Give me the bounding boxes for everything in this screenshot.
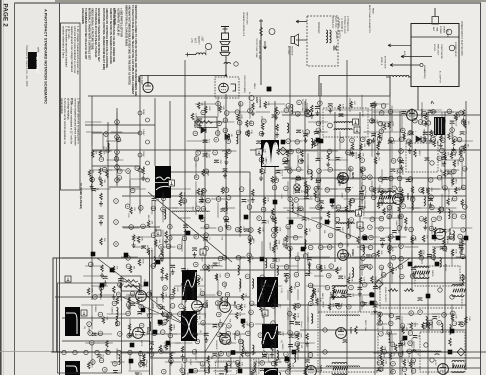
svg-text:HORIZ: HORIZ (105, 147, 107, 154)
resistor (403, 133, 406, 140)
pin circle (388, 263, 393, 268)
wire stub (111, 131, 123, 133)
ground (424, 121, 428, 126)
wire stub (165, 313, 180, 315)
transformer T4 sound coils (336, 211, 354, 224)
audio output transformer secondary (330, 30, 332, 43)
parts list note (113, 8, 123, 37)
network box (121, 276, 141, 291)
wire horizontal bus (92, 165, 140, 167)
resistor (219, 106, 222, 113)
svg-text:5mf: 5mf (375, 103, 377, 107)
pin circle (401, 204, 406, 209)
coil (208, 364, 210, 374)
pin circle (288, 169, 293, 174)
coil (448, 209, 450, 219)
svg-text:SPEAKER & INTERLOCK: SPEAKER & INTERLOCK (242, 12, 245, 37)
svg-text:470K: 470K (454, 152, 456, 157)
wire stub (217, 127, 219, 137)
coil (311, 170, 313, 180)
coil (352, 268, 354, 278)
resistor (349, 199, 352, 206)
pin circle (103, 367, 108, 372)
pin circle A (269, 29, 275, 35)
pin circle (422, 111, 427, 116)
pin circle (93, 295, 98, 300)
pin circle (296, 303, 301, 308)
pin circle (461, 185, 466, 190)
wire stub (317, 172, 319, 188)
ground (307, 262, 311, 267)
wire stub (249, 248, 251, 265)
capacitor (307, 258, 312, 261)
capacitor (295, 322, 300, 325)
wire stub (421, 102, 423, 120)
wire horizontal bus (250, 211, 466, 213)
callout box J (81, 310, 87, 316)
resistor (207, 265, 210, 272)
pin circle (360, 167, 365, 172)
wire diagonal 6 (97, 258, 185, 325)
resistor (181, 346, 184, 353)
transformer T2 4.5MC coils (334, 122, 352, 130)
ground (462, 118, 466, 123)
wire stub (280, 111, 300, 113)
wire stub (121, 256, 138, 258)
wire stub (174, 333, 194, 335)
svg-text:7MA: 7MA (436, 27, 439, 32)
svg-text:with: with (37, 47, 41, 53)
wire diagonal 3 (287, 210, 357, 238)
svg-text:100K: 100K (297, 303, 299, 308)
pin circle (305, 130, 310, 135)
pin circle (284, 265, 289, 270)
resistor (275, 107, 278, 114)
waveform photo W1 (155, 166, 171, 198)
wire speaker lead (296, 39, 307, 41)
pin circle tuner (205, 43, 211, 49)
terminal marker 9b (158, 320, 163, 325)
wire diagonal 4 (120, 296, 188, 326)
pin circle (117, 176, 122, 181)
resistor (170, 352, 173, 359)
resistor (274, 240, 277, 247)
capacitor (358, 207, 363, 210)
resistor (351, 143, 354, 150)
capacitor (428, 198, 433, 201)
wire stub (391, 106, 393, 122)
svg-text:8.2K: 8.2K (430, 187, 432, 192)
resistor (205, 106, 208, 113)
svg-text:PHOTOFACT: PHOTOFACT (35, 54, 39, 74)
pin circle (378, 121, 383, 126)
wire stub (323, 169, 342, 171)
svg-text:A TUNER AGC ...: A TUNER AGC ... (346, 16, 349, 34)
wire stub (106, 140, 121, 142)
coil (149, 322, 151, 332)
ground (274, 115, 278, 120)
wire stub (249, 290, 251, 300)
wire stub (132, 236, 152, 238)
svg-text:.0047: .0047 (302, 207, 304, 213)
pin circle (245, 131, 250, 136)
pin circle (203, 265, 208, 270)
pin circle (419, 255, 424, 260)
pin circle (369, 187, 374, 192)
scan left edge (0, 0, 2, 375)
terminal marker T4 (199, 215, 204, 220)
svg-text:12AU7: 12AU7 (155, 228, 158, 235)
filter choke coil (390, 75, 409, 77)
capacitor (220, 209, 225, 212)
ground (380, 242, 384, 247)
wire stub (274, 194, 276, 207)
pin circle (201, 207, 206, 212)
wire stub (443, 188, 461, 190)
coil (265, 258, 267, 268)
pin circle (99, 157, 104, 162)
capacitor (388, 141, 393, 144)
terminal marker 5 (301, 247, 306, 252)
pin circle (217, 121, 222, 126)
audio output dashed box (307, 16, 338, 66)
ground (327, 219, 331, 224)
pin circle (299, 159, 304, 164)
pin circle (407, 139, 412, 144)
pin circle (224, 188, 229, 193)
capacitor (131, 303, 136, 306)
pin circle (261, 207, 266, 212)
wire stub (277, 370, 297, 372)
capacitor (411, 267, 416, 270)
wire choke down (389, 77, 391, 96)
ground (284, 278, 288, 283)
pin circle (409, 227, 414, 232)
svg-text:AUDIO: AUDIO (335, 32, 338, 39)
coil (287, 123, 289, 133)
svg-text:1MEG: 1MEG (456, 160, 458, 166)
wire stub (239, 223, 241, 238)
transformer T8 (452, 285, 465, 297)
pin circle (227, 324, 232, 329)
callout box X (354, 127, 360, 133)
pin circle (151, 264, 156, 269)
pin circle (308, 353, 313, 358)
wire stub (431, 111, 454, 113)
wire stub (371, 181, 373, 198)
pin circle (378, 312, 383, 317)
ground (315, 110, 319, 115)
coil (277, 266, 279, 276)
pin circle (182, 236, 187, 241)
capacitor (362, 303, 367, 306)
resistor (128, 297, 131, 304)
pin circle (200, 362, 205, 367)
wire stub (400, 313, 418, 315)
resistor (408, 140, 411, 147)
resistor (410, 322, 413, 329)
diode D1 (201, 127, 206, 133)
wire stub (333, 207, 347, 209)
svg-text:VERT OSC ... F: VERT OSC ... F (334, 16, 336, 33)
power supply box (411, 24, 459, 87)
capacitor (135, 373, 140, 375)
terminal marker E2 (281, 140, 286, 145)
pin circle (201, 110, 206, 115)
pin circle (217, 312, 222, 317)
resistor (161, 267, 164, 274)
svg-text:VERTICAL: VERTICAL (412, 341, 415, 352)
coil (388, 333, 390, 343)
pin circle (201, 321, 206, 326)
wire stub (297, 155, 299, 167)
ground (423, 136, 427, 141)
pin circle (115, 178, 120, 183)
wire stub (225, 151, 227, 166)
pin circle (410, 197, 415, 202)
ground (330, 203, 334, 208)
pin circle (437, 130, 442, 135)
pin circle (151, 206, 156, 211)
pin circle term row 6 (128, 350, 132, 354)
wire stub (81, 304, 104, 306)
wire stub (255, 323, 272, 325)
pin circle (349, 285, 354, 290)
wire stub (116, 112, 118, 128)
wire stub (181, 287, 183, 305)
ground (251, 111, 255, 116)
wire vertical bus (169, 101, 171, 375)
wire stub (195, 181, 197, 194)
pin circle (88, 331, 93, 336)
wire stub (423, 313, 440, 315)
wire horizontal bus (300, 329, 466, 331)
wire box bottom down (417, 87, 419, 111)
wire horizontal bus (51, 351, 486, 353)
pin circle (314, 187, 319, 192)
resistor (239, 226, 242, 233)
svg-text:8.2K: 8.2K (275, 246, 277, 251)
svg-text:120K: 120K (383, 353, 385, 358)
pin circle (432, 217, 437, 222)
svg-text:(2): (2) (83, 326, 85, 329)
coil L2 (224, 62, 230, 64)
ground (397, 214, 401, 219)
wire stub (451, 171, 453, 186)
coil (242, 340, 244, 350)
terminal marker 9 (153, 330, 158, 335)
wire stub (217, 301, 219, 310)
pin circle (151, 233, 156, 238)
wire stub (278, 333, 296, 335)
pin circle (161, 196, 166, 201)
svg-text:2BN4: 2BN4 (137, 76, 140, 83)
pin circle (431, 109, 436, 114)
wire horizontal bus (350, 282, 466, 284)
wire horizontal bus (155, 171, 250, 173)
resistor (183, 372, 186, 375)
pin circle (196, 151, 201, 156)
svg-text:POWER: POWER (439, 26, 441, 34)
svg-text:3.3MEG: 3.3MEG (128, 295, 130, 303)
resistor (277, 148, 280, 155)
ground (400, 197, 404, 202)
capacitor (366, 255, 371, 258)
pin circle (288, 331, 293, 336)
pin circle (316, 121, 321, 126)
svg-text:VERT OSC: VERT OSC (447, 188, 449, 199)
resistor (358, 153, 361, 160)
svg-text:400T: 400T (215, 274, 219, 280)
pin circle (437, 320, 442, 325)
wire stub (231, 352, 249, 354)
ground (404, 225, 408, 230)
wire stub (430, 207, 449, 209)
wire stub (376, 323, 387, 325)
wire stub (129, 352, 131, 370)
wire stub (451, 250, 453, 266)
resistor 500K (225, 364, 228, 372)
wire stub (385, 333, 397, 335)
svg-text:2ND IF: 2ND IF (262, 199, 264, 206)
pin circle (193, 368, 198, 373)
pin circle (182, 358, 187, 363)
ground (271, 216, 275, 221)
resistor (373, 187, 376, 194)
pin circle (380, 188, 385, 193)
resistor (128, 324, 131, 331)
resistor (427, 322, 430, 329)
pin circle (289, 149, 294, 154)
wire stub (217, 354, 219, 368)
wire stub (217, 280, 219, 296)
pin circle (368, 175, 373, 180)
resistor (311, 105, 314, 112)
capacitor (203, 154, 208, 157)
svg-text:WIDTH: WIDTH (431, 270, 433, 277)
wire stub (308, 121, 328, 123)
resistor (159, 345, 162, 352)
resistor (225, 152, 228, 159)
pin circle (460, 322, 465, 327)
wire stub (217, 104, 219, 118)
pin terminal guide text (358, 196, 366, 210)
pin circle (118, 332, 123, 337)
capacitor (295, 190, 300, 193)
pin circle (450, 128, 455, 133)
resistor (241, 293, 244, 300)
resistor (391, 267, 394, 274)
terminal marker A3 (370, 293, 375, 298)
pin circle power 1 (446, 29, 452, 35)
wire stub (441, 170, 443, 188)
capacitor (413, 336, 418, 339)
pin circle (224, 111, 229, 116)
wire stub (174, 285, 189, 287)
coil (289, 248, 291, 258)
resistor (451, 249, 454, 256)
pin circle (328, 167, 333, 172)
wire stub (209, 121, 225, 123)
pin circle (437, 216, 442, 221)
antenna stack (220, 27, 230, 56)
wire stub (198, 323, 210, 325)
pin circle (218, 322, 223, 327)
pin circle (294, 198, 299, 203)
pin circle (125, 204, 130, 209)
wire horizontal bus (92, 132, 140, 134)
resistor (443, 239, 446, 246)
capacitor (203, 238, 208, 241)
waveforms note (81, 8, 101, 62)
pin circle (377, 361, 382, 366)
pin circle (401, 128, 406, 133)
ground (284, 243, 288, 248)
transformer T7 yoke2 (332, 363, 348, 375)
wire horizontal bus (170, 234, 250, 236)
resistor (142, 168, 145, 175)
wire stub (274, 131, 276, 145)
svg-text:4.7: 4.7 (220, 107, 222, 110)
svg-text:UNIT: UNIT (201, 36, 204, 42)
resistor (381, 359, 384, 366)
svg-text:... C SOUND IF: ... C SOUND IF (340, 16, 342, 32)
ground (328, 108, 332, 113)
wire stub (287, 227, 289, 241)
note 2 (62, 26, 68, 67)
coil (116, 307, 118, 317)
svg-text:120K: 120K (374, 276, 376, 281)
wire stub (290, 140, 303, 142)
svg-text:3RD IF: 3RD IF (142, 355, 144, 362)
arrow left bottom (401, 351, 406, 353)
pin circle (340, 254, 345, 259)
pin circle (452, 169, 457, 174)
coil (311, 314, 313, 324)
pin circle (452, 214, 457, 219)
resistor (360, 167, 363, 174)
resistor (448, 133, 451, 140)
ground (376, 151, 380, 156)
capacitor (371, 120, 376, 123)
wire stub (317, 191, 319, 208)
wire vertical bus (184, 60, 186, 375)
capacitor (91, 189, 96, 192)
ground (429, 202, 433, 207)
svg-text:5AT8: 5AT8 (319, 365, 323, 372)
coil (239, 279, 241, 289)
wire stub (306, 285, 327, 287)
pin circle (115, 120, 120, 125)
svg-text:V (2): V (2) (280, 288, 282, 293)
capacitor (113, 371, 118, 374)
terminal marker A4 (370, 301, 375, 306)
pin circle (439, 207, 444, 212)
pin circle (270, 291, 275, 296)
pin circle (260, 169, 265, 174)
wire stub (385, 236, 400, 238)
wire horizontal bus (282, 177, 466, 179)
resistor (166, 315, 169, 322)
capacitor (373, 305, 378, 308)
svg-text:VIDEO: VIDEO (401, 169, 403, 176)
resistor (264, 101, 267, 108)
svg-text:+45 MC: +45 MC (361, 110, 363, 118)
resistor (260, 168, 263, 175)
ground (200, 197, 204, 202)
pin circle (284, 108, 289, 113)
pin circle (360, 302, 365, 307)
